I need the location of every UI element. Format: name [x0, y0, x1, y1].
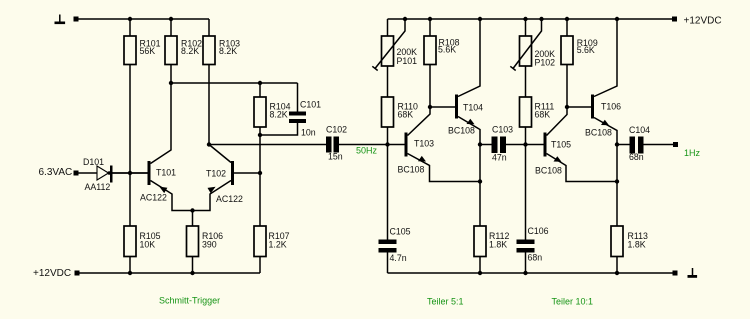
node junction T102 collector — [207, 142, 211, 146]
svg-text:68n: 68n — [528, 253, 543, 263]
wire input to D101 — [79, 172, 98, 174]
wire R106 bottom lead — [192, 257, 194, 274]
wire T102 base column — [259, 135, 261, 226]
pin top-left ground terminal — [74, 17, 79, 22]
wire T101 collector rail — [171, 82, 298, 84]
wire D101 to T101 base — [113, 172, 148, 174]
wire T103 collector — [408, 107, 431, 136]
wire R101 top lead — [129, 19, 131, 36]
wire T101 base lead — [113, 172, 148, 174]
transistor T102 — [206, 161, 243, 204]
svg-text:68K: 68K — [398, 110, 414, 120]
wire R102 top lead — [170, 19, 172, 36]
node junction T104 collector top — [478, 17, 482, 21]
wire R109 top lead — [566, 19, 568, 36]
resistor R102 — [165, 36, 202, 65]
capacitor C101 — [289, 100, 321, 138]
wire bottom +12V rail left — [80, 272, 261, 274]
wire C105 top lead — [387, 145, 389, 240]
svg-text:8.2K: 8.2K — [219, 46, 237, 56]
svg-text:Teiler 5:1: Teiler 5:1 — [427, 297, 464, 307]
wire T102 emitter — [193, 181, 232, 211]
resistor R111 — [520, 97, 555, 127]
capacitor C106 — [517, 226, 549, 263]
svg-text:P102: P102 — [535, 58, 556, 68]
resistor R109 — [561, 36, 598, 65]
wire C104 left lead — [617, 144, 630, 146]
node junction R109 top — [565, 17, 569, 21]
wire T105 collector — [547, 107, 568, 136]
node junction T102 base — [258, 171, 262, 175]
wire T101 emitter — [151, 181, 193, 211]
arrow T101 emitter (PNP) — [159, 187, 167, 194]
node junction R101 top — [128, 17, 132, 21]
svg-text:AC122: AC122 — [140, 193, 167, 203]
wire P101 top lead — [387, 19, 389, 36]
wire R108 bottom lead — [429, 65, 431, 108]
node junction P102 wiper — [539, 17, 543, 21]
svg-text:BC108: BC108 — [585, 128, 612, 138]
ground GND2 bottom-right — [688, 268, 698, 278]
wire signal to C102 — [209, 144, 326, 146]
svg-text:1Hz: 1Hz — [684, 148, 701, 158]
wire T106 emitter — [594, 118, 617, 227]
node junction P102 top — [523, 17, 527, 21]
node junction T101 base / D101 — [128, 171, 132, 175]
svg-text:T101: T101 — [156, 168, 176, 178]
node junction R104/C101 bottom — [258, 133, 262, 137]
resistor R113 — [611, 226, 648, 257]
svg-text:15n: 15n — [328, 152, 343, 162]
wire R112 bottom lead — [479, 257, 481, 274]
svg-text:T103: T103 — [414, 139, 434, 149]
svg-text:5.6K: 5.6K — [438, 45, 456, 55]
potentiometer P102 — [510, 19, 555, 71]
wire T104 collector — [458, 19, 480, 97]
resistor R106 — [187, 226, 224, 257]
svg-text:C103: C103 — [492, 125, 513, 135]
svg-text:T102: T102 — [206, 169, 226, 179]
arrow T103 emitter (NPN) — [418, 156, 426, 162]
diode D101 — [83, 157, 113, 192]
transistor T106 — [585, 95, 621, 138]
svg-text:1.8K: 1.8K — [628, 240, 646, 250]
potentiometer P101 — [372, 19, 417, 71]
capacitor C105 — [379, 227, 411, 264]
wire C101 bottom lead — [260, 123, 298, 135]
wire T106 collector — [594, 19, 617, 97]
node junction emitters R113 — [615, 179, 619, 183]
wire C103 left lead — [480, 144, 492, 146]
svg-text:C102: C102 — [326, 125, 347, 135]
wire C104 to output pin — [644, 144, 674, 146]
node junction T103 collector / T104 base — [428, 105, 432, 109]
wire P101 to R110 — [387, 66, 389, 97]
resistor R107 — [254, 226, 290, 257]
node junction R105 bottom — [128, 271, 132, 275]
node junction R110/C105/T103 base — [385, 142, 389, 146]
node junction R108 top — [428, 17, 432, 21]
ground GND1 top-left — [55, 15, 66, 25]
svg-text:1.8K: 1.8K — [489, 240, 507, 250]
wire R104 top lead — [259, 83, 261, 97]
svg-text:68n: 68n — [629, 152, 644, 162]
svg-text:P101: P101 — [397, 56, 418, 66]
wire R111 bottom lead — [525, 127, 527, 145]
capacitor C103 — [492, 125, 514, 163]
node junction R102/T101 collector — [169, 81, 173, 85]
pin 1Hz output — [673, 142, 678, 147]
arrow T106 emitter (NPN) — [601, 120, 609, 126]
resistor R108 — [424, 36, 460, 65]
svg-text:C106: C106 — [528, 226, 549, 236]
wire R109 bottom lead — [566, 65, 568, 108]
svg-text:+12VDC: +12VDC — [684, 16, 722, 27]
arrow T102 emitter (PNP) — [208, 187, 216, 194]
wire C106 top lead — [525, 145, 527, 240]
wire T103 emitter — [408, 154, 481, 182]
svg-text:390: 390 — [202, 240, 217, 250]
wire C101 top lead — [297, 83, 299, 112]
wire T105 emitter — [547, 154, 618, 182]
svg-text:10n: 10n — [301, 128, 316, 138]
wire T104 emitter — [458, 117, 480, 227]
wire R102 bottom lead — [170, 65, 172, 84]
node junction emitters / R106 — [190, 208, 194, 212]
node junction T105 collector / T106 base — [565, 105, 569, 109]
svg-text:10K: 10K — [140, 240, 156, 250]
node junction P101 wiper — [403, 17, 407, 21]
node junction R111/C106/T105 base — [523, 142, 527, 146]
resistor R103 — [203, 36, 240, 65]
wire R108 top lead — [429, 19, 431, 36]
transistor T103 — [398, 133, 435, 175]
wire R107 bottom lead — [259, 257, 261, 274]
wire R101 bottom to base node column — [129, 65, 131, 227]
wire T101 collector vertical — [151, 83, 172, 164]
svg-text:4.7n: 4.7n — [390, 253, 407, 263]
wire R103 top lead — [208, 19, 210, 36]
resistor R105 — [124, 226, 161, 257]
capacitor C102 — [326, 125, 347, 162]
svg-text:8.2K: 8.2K — [181, 46, 199, 56]
pin +12VDC bottom-left — [75, 271, 80, 276]
svg-text:BC108: BC108 — [535, 166, 562, 176]
pin 6.3VAC input — [74, 171, 79, 176]
svg-text:BC108: BC108 — [398, 165, 425, 175]
arrow T104 emitter (NPN) — [467, 119, 475, 125]
pin ground bottom-right — [673, 271, 678, 276]
wire C105 bottom lead — [387, 253, 389, 274]
capacitor C104 — [629, 125, 650, 162]
resistor R110 — [382, 97, 418, 127]
wire T104 base lead — [430, 106, 455, 108]
svg-text:T105: T105 — [551, 140, 571, 150]
node junction C104 left — [615, 142, 619, 146]
arrow T105 emitter (NPN) — [554, 156, 562, 162]
resistor R101 — [124, 36, 161, 65]
svg-text:AC122: AC122 — [216, 194, 243, 204]
node junction R112 bottom — [478, 271, 482, 275]
wire R105 bottom lead — [129, 257, 131, 274]
svg-text:50Hz: 50Hz — [356, 146, 378, 156]
svg-text:C101: C101 — [300, 100, 321, 110]
wire C102 to T103 base node — [339, 144, 405, 146]
svg-text:Schmitt-Trigger: Schmitt-Trigger — [159, 296, 220, 306]
wire C103 to T105 base — [506, 144, 544, 146]
node junction C103 left — [478, 142, 482, 146]
svg-text:68K: 68K — [535, 110, 551, 120]
node junction R113 bottom — [615, 271, 619, 275]
node junction T106 collector top — [615, 17, 619, 21]
wire bottom ground rail right — [388, 272, 673, 274]
svg-text:T104: T104 — [463, 103, 483, 113]
svg-text:5.6K: 5.6K — [577, 45, 595, 55]
svg-text:C104: C104 — [629, 125, 650, 135]
transistor T104 — [448, 95, 483, 136]
node junction C106 bottom — [523, 271, 527, 275]
svg-text:AA112: AA112 — [85, 182, 111, 192]
svg-text:Teiler 10:1: Teiler 10:1 — [552, 297, 594, 307]
node junction emitters R112 — [478, 179, 482, 183]
svg-text:56K: 56K — [140, 46, 156, 56]
node junction R104 top — [258, 81, 262, 85]
wire T102 base lead — [234, 172, 260, 174]
wire R113 bottom lead — [616, 257, 618, 274]
node junction R102 top — [169, 17, 173, 21]
svg-text:47n: 47n — [492, 153, 507, 163]
resistor R112 — [474, 226, 509, 257]
wire top ground rail — [79, 18, 210, 20]
svg-text:BC108: BC108 — [448, 126, 475, 136]
wire T102 collector diagonal — [209, 145, 231, 163]
svg-text:D101: D101 — [83, 157, 104, 167]
svg-text:6.3VAC: 6.3VAC — [39, 167, 73, 178]
svg-text:8.2K: 8.2K — [270, 110, 288, 120]
pin +12VDC top-right — [672, 17, 677, 22]
svg-text:+12VDC: +12VDC — [33, 268, 71, 279]
transistor T101 — [140, 161, 176, 203]
wire P102 top lead — [525, 19, 527, 36]
wire R104 bottom lead — [259, 127, 261, 135]
svg-text:1.2K: 1.2K — [269, 240, 287, 250]
resistor R104 — [254, 97, 291, 127]
wire R110 bottom lead — [387, 127, 389, 145]
transistor T105 — [535, 133, 571, 176]
svg-text:T106: T106 — [601, 102, 621, 112]
wire emitter junction to R106 — [192, 211, 194, 227]
wire C106 bottom lead — [525, 253, 527, 274]
wire P102 to R111 — [525, 66, 527, 97]
node junction R106 bottom — [190, 271, 194, 275]
wire R103 bottom lead — [208, 65, 210, 145]
svg-text:C105: C105 — [390, 227, 411, 237]
wire +12V top rail — [388, 18, 673, 20]
wire T106 base lead — [567, 106, 591, 108]
